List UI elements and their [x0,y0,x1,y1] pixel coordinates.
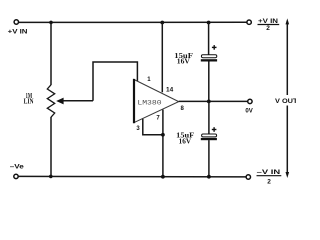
wire pin 7 down [162,110,164,177]
op-amp U1 LM380 body [134,79,179,123]
node pot bottom junction [49,175,53,179]
potentiometer VR1 zigzag [47,85,54,117]
terminal +V IN [8,20,28,36]
node C2 bottom junction [207,175,211,179]
wire pin 14 to top rail [161,22,163,92]
node pin3 pin7 junction [161,133,165,137]
node C1 rail junction [207,21,211,25]
svg-text:0V: 0V [245,108,253,115]
node output C junction [207,100,211,104]
V OUT dimension arrow [286,18,290,178]
node pin 7 bottom junction [161,175,165,179]
terminal -Ve [10,164,24,179]
wire left vertical lower [50,117,52,177]
node pin 14 rail junction [160,21,164,25]
wire wiper loop to pin 1 [93,62,137,101]
wire bottom rail [18,175,246,178]
svg-text:14: 14 [166,87,174,93]
wire pin 3 to pin 7 line [143,119,163,135]
svg-text:LIN: LIN [24,99,34,106]
svg-text:V OUT: V OUT [275,98,296,105]
svg-text:2: 2 [267,178,271,185]
wire C1 top lead [208,22,210,55]
wire top rail [19,21,247,23]
wire C2 bottom lead [208,140,210,177]
terminal -V IN / 2 [246,169,281,185]
label C2 value [176,133,194,146]
svg-text:16V: 16V [177,59,190,66]
terminal 0V [245,99,253,114]
svg-text:16V: 16V [179,138,191,145]
wire C1 bottom lead [208,61,210,101]
svg-text:–Ve: –Ve [10,164,24,171]
node pot top junction [49,21,53,25]
capacitor C2 15uF 16V [201,127,217,140]
capacitor C1 15uF 16V [201,45,217,61]
wire C2 top lead [208,101,210,134]
potentiometer VR1 wiper arrow [56,98,93,105]
svg-text:2: 2 [266,25,270,32]
svg-text:+V IN: +V IN [8,28,28,35]
wire left vertical upper [50,22,52,85]
label C1 value [174,53,193,66]
wire output rail [179,100,248,102]
terminal +V IN / 2 [247,18,279,32]
label VR1 value 1M LIN [24,93,34,106]
svg-text:LM380: LM380 [137,100,161,107]
